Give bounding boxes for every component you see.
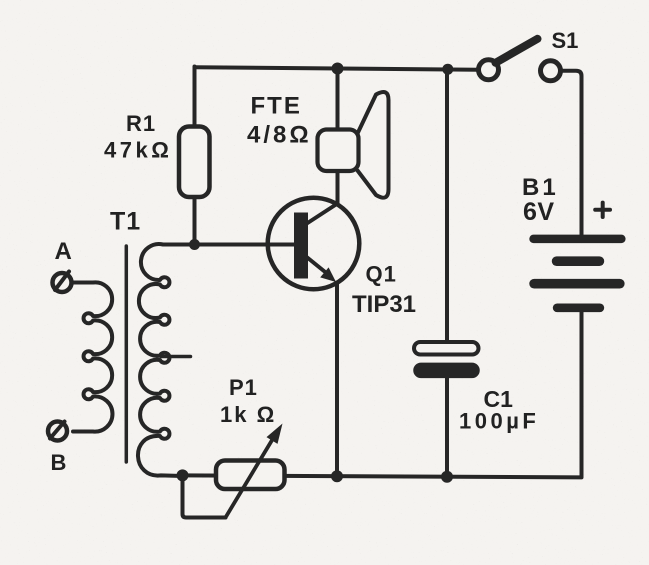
svg-text:S1: S1 [552,28,579,53]
svg-text:100µF: 100µF [459,409,539,434]
svg-text:P1: P1 [229,375,258,400]
svg-text:T1: T1 [110,208,141,236]
svg-text:B: B [51,450,67,475]
svg-text:TIP31: TIP31 [352,291,416,318]
svg-text:R1: R1 [126,111,156,136]
svg-text:47kΩ: 47kΩ [104,138,172,163]
svg-text:4/8Ω: 4/8Ω [247,122,312,149]
svg-text:A: A [55,238,72,265]
svg-text:6V: 6V [523,198,555,226]
svg-text:FTE: FTE [251,93,302,120]
svg-text:1k Ω: 1k Ω [220,402,276,427]
svg-text:B1: B1 [522,174,559,201]
svg-text:Q1: Q1 [366,262,397,287]
